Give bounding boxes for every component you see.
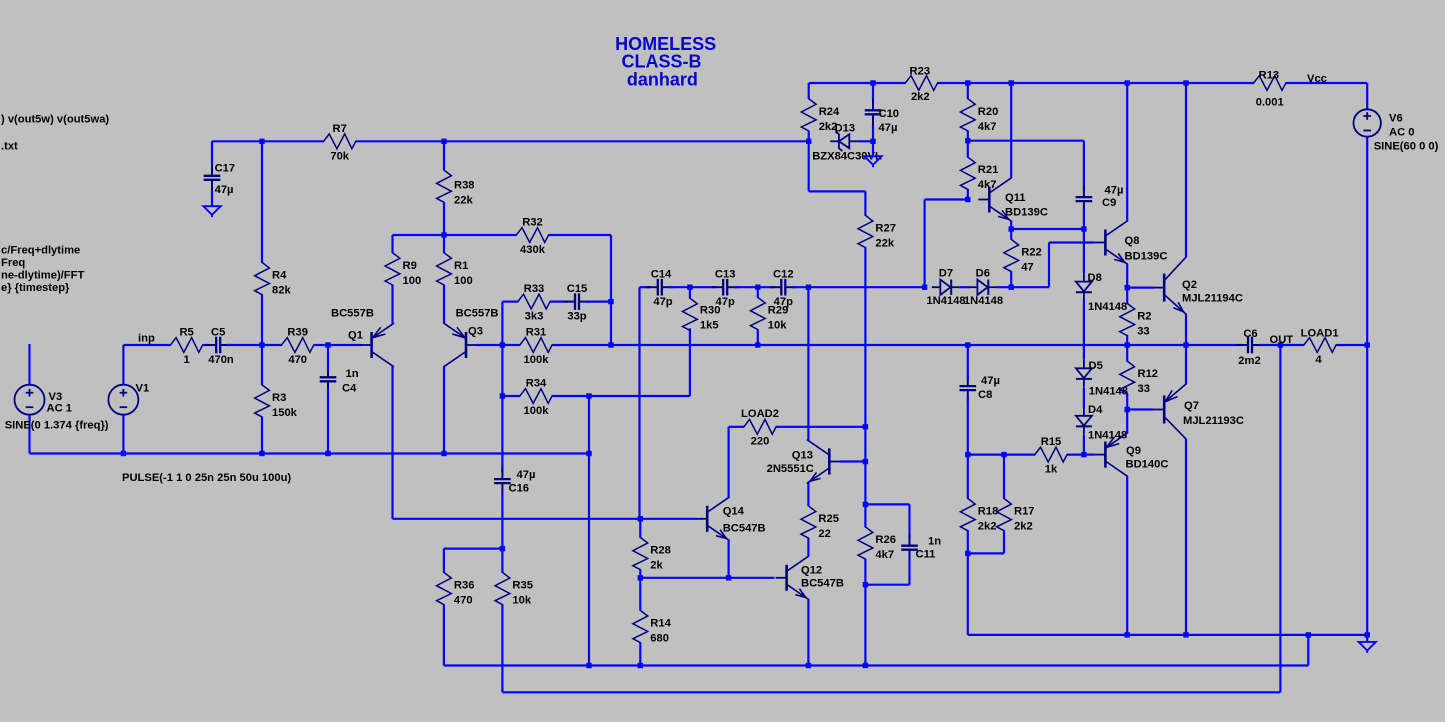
- svg-text:R38: R38: [454, 180, 475, 192]
- capacitor C14: [646, 269, 673, 309]
- node jct LOAD2/R27: [863, 424, 868, 429]
- node jct Q3 collector: [441, 451, 446, 456]
- svg-text:100k: 100k: [524, 405, 550, 417]
- resistor R26: [858, 527, 896, 561]
- svg-text:100: 100: [454, 275, 473, 287]
- node jct R31 right: [608, 342, 613, 347]
- capacitor C9: [1076, 185, 1124, 230]
- node jct output: [1183, 342, 1188, 347]
- wire Q12 emitter: [807, 599, 809, 665]
- resistor R23: [905, 65, 937, 103]
- voltage source V3: [5, 344, 109, 454]
- resistor R7: [324, 123, 356, 163]
- wire R21 leads: [967, 141, 969, 200]
- wire R27/Q13 chain: [864, 427, 866, 505]
- svg-text:R29: R29: [768, 305, 789, 317]
- capacitor C10: [865, 83, 899, 141]
- wire D6 right: [996, 286, 1011, 288]
- svg-text:R36: R36: [454, 580, 475, 592]
- wire R14 leads: [639, 578, 641, 666]
- svg-text:1N4148: 1N4148: [1088, 430, 1127, 442]
- wire Q7 base: [1127, 408, 1153, 410]
- svg-text:100k: 100k: [524, 354, 550, 366]
- wire C5-jct: [226, 344, 262, 346]
- svg-text:D4: D4: [1088, 404, 1103, 416]
- svg-text:danhard: danhard: [627, 69, 698, 89]
- title text: [615, 34, 716, 90]
- node jct C4 bottom: [325, 451, 330, 456]
- wire Q13 collector: [807, 287, 809, 440]
- svg-text:R4: R4: [272, 270, 287, 282]
- resistor R13: [1254, 70, 1286, 109]
- svg-text:R26: R26: [875, 534, 896, 546]
- wire x589 down: [588, 396, 590, 666]
- wire inp: [123, 344, 170, 346]
- svg-text:82k: 82k: [272, 285, 291, 297]
- wire R25 top: [807, 483, 809, 506]
- wire C12 right: [792, 286, 808, 288]
- node jct R35 top: [500, 546, 505, 551]
- svg-text:AC 0: AC 0: [1389, 126, 1415, 138]
- wire LOAD1 right: [1336, 344, 1367, 346]
- wire R31 left: [502, 344, 520, 346]
- wire D13 right: [858, 140, 873, 142]
- capacitor C5: [205, 326, 234, 366]
- resistor R3: [255, 385, 298, 419]
- svg-text:430k: 430k: [520, 244, 546, 256]
- svg-text:R23: R23: [910, 65, 931, 77]
- svg-text:R33: R33: [524, 283, 545, 295]
- wire Q8 collector: [1126, 83, 1128, 221]
- svg-text:CLASS-B: CLASS-B: [622, 51, 702, 71]
- wire R3 leads: [261, 345, 263, 454]
- svg-text:BC547B: BC547B: [801, 578, 844, 590]
- svg-text:1k5: 1k5: [700, 320, 719, 332]
- svg-text:D8: D8: [1088, 272, 1102, 284]
- svg-text:1n: 1n: [346, 368, 359, 380]
- svg-text:C15: C15: [567, 283, 588, 295]
- ground C17: [203, 206, 220, 217]
- wire C15 right: [586, 301, 611, 303]
- wire x611 down: [610, 302, 612, 345]
- svg-text:BC557B: BC557B: [456, 308, 499, 320]
- node jct OUT: [1278, 342, 1283, 347]
- wire Q9 emitter: [1126, 410, 1128, 434]
- resistor R34: [520, 377, 552, 417]
- svg-text:R21: R21: [978, 164, 999, 176]
- wire R28 leads: [639, 519, 641, 578]
- wire Q2 collector: [1185, 83, 1187, 257]
- wire OUT-LOAD1: [1259, 344, 1304, 346]
- svg-text:4k7: 4k7: [875, 549, 894, 561]
- svg-text:33p: 33p: [567, 310, 586, 322]
- svg-text:R1: R1: [454, 260, 468, 272]
- node inp label: [138, 333, 155, 345]
- diode D6: [964, 267, 1003, 306]
- wire R22 leads: [1010, 229, 1012, 287]
- wire R30 bottom link: [589, 328, 690, 396]
- svg-text:Q11: Q11: [1005, 192, 1026, 204]
- node jct Q2 base: [1125, 285, 1130, 290]
- node jct D4/R15: [1081, 452, 1086, 457]
- resistor R27: [858, 215, 896, 249]
- svg-text:C17: C17: [215, 162, 236, 174]
- svg-text:Q8: Q8: [1125, 235, 1140, 247]
- wire R34 left: [502, 345, 520, 396]
- svg-text:47µ: 47µ: [1105, 185, 1124, 197]
- node jct Q7 collector bottom: [1183, 632, 1188, 637]
- diode D4: [1076, 404, 1127, 442]
- svg-text:R12: R12: [1138, 368, 1159, 380]
- wire D7-D6: [959, 286, 969, 288]
- wire R39-C4jct: [314, 344, 328, 346]
- wire C11 bottom link: [865, 584, 909, 586]
- wire Q2 emitter: [1185, 314, 1187, 345]
- svg-text:D5: D5: [1089, 360, 1103, 372]
- node jct C11 top: [863, 502, 868, 507]
- resistor R25: [801, 506, 839, 540]
- svg-text:SINE(60 0 0): SINE(60 0 0): [1374, 141, 1439, 153]
- wire C14-C13: [669, 286, 716, 288]
- transistor Q9: [1094, 433, 1168, 476]
- wire R5-C5: [203, 344, 211, 346]
- svg-text:R35: R35: [512, 580, 533, 592]
- node label OUT: [1270, 334, 1294, 346]
- wire R32 left: [444, 234, 517, 236]
- wire R27 bottom: [864, 248, 866, 427]
- svg-text:470n: 470n: [208, 354, 234, 366]
- wire R36 top: [444, 549, 503, 573]
- node jct R29 top: [755, 285, 760, 290]
- svg-text:C9: C9: [1102, 197, 1116, 209]
- svg-text:3k3: 3k3: [525, 310, 544, 322]
- node label Vcc: [1307, 73, 1327, 85]
- svg-text:D6: D6: [976, 267, 990, 279]
- node jct R2/R12: [1125, 342, 1130, 347]
- wire diode row left: [808, 286, 924, 288]
- resistor R38: [437, 170, 475, 206]
- wire Q11 collector: [1010, 83, 1012, 178]
- resistor R15: [1035, 436, 1067, 476]
- svg-text:470: 470: [454, 595, 473, 607]
- svg-text:1N4148: 1N4148: [926, 295, 965, 307]
- svg-text:47µ: 47µ: [981, 375, 1000, 387]
- transistor Q8: [1094, 221, 1167, 264]
- node jct R28 top: [638, 516, 643, 521]
- node jct R34 left: [500, 393, 505, 398]
- node jct D6/R22: [1009, 285, 1014, 290]
- svg-text:R13: R13: [1259, 70, 1280, 82]
- node jct LOAD1 right: [1365, 342, 1370, 347]
- wire R4 leads: [261, 141, 263, 345]
- capacitor C16: [494, 396, 535, 549]
- svg-text:SINE(0 1.374 {freq}): SINE(0 1.374 {freq}): [5, 420, 109, 432]
- svg-text:Q3: Q3: [468, 326, 483, 338]
- wire Q11 base drop: [925, 200, 968, 288]
- wire R17 leads: [1003, 455, 1005, 554]
- wire R17-R18 bottom: [968, 552, 1004, 554]
- node jct R30 top: [687, 285, 692, 290]
- wire Vcc corner: [1366, 83, 1368, 109]
- svg-text:2k: 2k: [650, 560, 663, 572]
- svg-text:47: 47: [1021, 262, 1033, 274]
- resistor R4: [255, 262, 292, 296]
- node jct Q8 collector: [1125, 80, 1130, 85]
- ground C10: [864, 141, 881, 167]
- wire R36 bottom: [443, 605, 445, 666]
- resistor R18: [960, 499, 998, 533]
- svg-text:BD139C: BD139C: [1125, 251, 1168, 263]
- svg-text:C4: C4: [342, 383, 357, 395]
- svg-text:BD139C: BD139C: [1005, 207, 1048, 219]
- svg-text:1N4148: 1N4148: [1089, 386, 1128, 398]
- svg-text:BC547B: BC547B: [723, 523, 766, 535]
- svg-text:R27: R27: [875, 223, 896, 235]
- svg-text:2k2: 2k2: [1014, 521, 1033, 533]
- node jct C4 top: [325, 342, 330, 347]
- wire R34 right: [552, 395, 589, 397]
- resistor R5: [171, 326, 203, 366]
- wire R33 left: [502, 302, 518, 345]
- node jct Q12 emitter: [806, 663, 811, 668]
- svg-text:LOAD1: LOAD1: [1301, 328, 1339, 340]
- capacitor C15: [564, 283, 591, 323]
- svg-text:C11: C11: [916, 549, 936, 561]
- svg-text:10k: 10k: [512, 595, 531, 607]
- svg-text:Freq: Freq: [1, 257, 25, 269]
- transistor Q3: [444, 308, 498, 367]
- svg-text:47µ: 47µ: [879, 122, 898, 134]
- node jct C8 bottom: [965, 452, 970, 457]
- svg-text:) v(out5w) v(out5wa): ) v(out5w) v(out5wa): [1, 114, 109, 126]
- svg-text:Q7: Q7: [1184, 400, 1199, 412]
- svg-text:e} {timestep}: e} {timestep}: [1, 282, 70, 294]
- node jct D7 left: [922, 285, 927, 290]
- svg-text:C12: C12: [773, 269, 794, 281]
- capacitor C4: [320, 345, 359, 454]
- svg-text:R31: R31: [526, 326, 547, 338]
- svg-text:C14: C14: [651, 269, 672, 281]
- svg-text:MJL21194C: MJL21194C: [1182, 293, 1243, 305]
- wire R29 leads: [757, 287, 759, 345]
- svg-text:PULSE(-1 1 0 25n 25n 50u 100u): PULSE(-1 1 0 25n 25n 50u 100u): [122, 472, 291, 484]
- wire Q12 collector: [807, 538, 809, 556]
- resistor R32: [516, 216, 548, 256]
- wire Q13 base: [840, 460, 865, 462]
- svg-text:R14: R14: [650, 618, 671, 630]
- svg-text:1N4148: 1N4148: [1088, 301, 1127, 313]
- node jct R20 bottom: [965, 138, 970, 143]
- node jct R24/D13: [806, 139, 811, 144]
- svg-text:Q13: Q13: [792, 449, 813, 461]
- node jct C15 right: [608, 299, 613, 304]
- transistor Q13: [767, 440, 841, 483]
- svg-text:C13: C13: [715, 269, 736, 281]
- svg-text:V1: V1: [136, 383, 150, 395]
- wire R7 to R24: [356, 140, 809, 142]
- resistor R22: [1004, 239, 1042, 273]
- node jct R17 top: [1001, 452, 1006, 457]
- svg-text:LOAD2: LOAD2: [741, 408, 779, 420]
- svg-text:R39: R39: [287, 326, 308, 338]
- wire D5-D4: [1083, 388, 1085, 408]
- svg-text:c/Freq+dlytime: c/Freq+dlytime: [1, 245, 80, 257]
- node jct C12/Q13: [806, 285, 811, 290]
- svg-text:BC557B: BC557B: [331, 308, 374, 320]
- wire Q9 collector: [1126, 476, 1128, 635]
- resistor R12: [1120, 361, 1158, 395]
- svg-text:2k2: 2k2: [978, 521, 997, 533]
- resistor R39: [282, 326, 314, 366]
- resistor R36: [437, 572, 475, 606]
- svg-text:R28: R28: [650, 545, 671, 557]
- node jct C9 bottom: [1081, 226, 1086, 231]
- resistor LOAD2: [741, 408, 779, 448]
- svg-text:150k: 150k: [272, 407, 298, 419]
- node jct R38/R32/R9/R1: [441, 232, 446, 237]
- svg-text:R32: R32: [522, 216, 543, 228]
- wire top rail: [809, 82, 1367, 84]
- svg-text:R24: R24: [819, 106, 840, 118]
- wire C9-D8: [1083, 229, 1085, 273]
- voltage source V1: [108, 345, 149, 454]
- wire LOAD2 right: [776, 426, 865, 428]
- wire Q14 collector: [729, 427, 744, 498]
- node jct C10 top: [870, 80, 875, 85]
- svg-text:R20: R20: [978, 106, 999, 118]
- wire V6 bottom: [1366, 137, 1368, 635]
- svg-text:C16: C16: [509, 483, 530, 495]
- wire Q1 emitter up: [391, 285, 393, 324]
- wire R12 leads: [1126, 345, 1128, 410]
- wire R32 right: [549, 235, 612, 302]
- wire Q3 collector: [443, 367, 445, 454]
- wire Q7 collector: [1185, 439, 1187, 635]
- svg-text:47µ: 47µ: [215, 184, 234, 196]
- svg-text:2k2: 2k2: [911, 91, 930, 103]
- svg-text:R15: R15: [1041, 436, 1062, 448]
- wire bottom rail y665: [444, 635, 1308, 666]
- svg-text:1k: 1k: [1045, 463, 1058, 475]
- spice directive fragments: [1, 114, 291, 485]
- node jct V6 gnd: [1365, 632, 1370, 637]
- wire emitter-C9: [1011, 228, 1084, 230]
- svg-text:70k: 70k: [330, 150, 349, 162]
- node jct R3 bottom: [259, 451, 264, 456]
- svg-text:D7: D7: [939, 267, 953, 279]
- node jct R29 bottom: [755, 342, 760, 347]
- transistor Q12: [776, 556, 844, 599]
- node jct Q7 base: [1125, 407, 1130, 412]
- transistor Q11: [978, 178, 1048, 221]
- node jct y665-y635 link: [1306, 632, 1311, 637]
- resistor R14: [633, 610, 672, 644]
- svg-text:AC 1: AC 1: [47, 403, 73, 415]
- voltage source V6: [1354, 109, 1439, 152]
- svg-text:0.001: 0.001: [1256, 96, 1284, 108]
- node jct R14 bottom: [638, 663, 643, 668]
- svg-text:BD140C: BD140C: [1126, 459, 1169, 471]
- svg-text:10k: 10k: [768, 320, 787, 332]
- node jct C17/R4: [259, 139, 264, 144]
- svg-text:R9: R9: [403, 260, 417, 272]
- node jct R34 right: [586, 393, 591, 398]
- wire R20 leads: [967, 83, 969, 141]
- ground bottom right: [1359, 635, 1376, 653]
- capacitor C6: [1237, 328, 1264, 367]
- node jct Q13 base: [863, 459, 868, 464]
- diode D7: [926, 267, 965, 306]
- svg-text:V6: V6: [1389, 113, 1403, 125]
- wire to Q14 base: [640, 518, 697, 520]
- node jct Q3 base: [500, 342, 505, 347]
- svg-text:1N4148: 1N4148: [964, 295, 1003, 307]
- svg-text:Q1: Q1: [348, 330, 363, 342]
- transistor Q1: [331, 308, 393, 367]
- wire R26 to bottom: [864, 585, 866, 666]
- svg-text:R22: R22: [1021, 247, 1042, 259]
- svg-text:R30: R30: [700, 305, 721, 317]
- svg-text:C5: C5: [211, 326, 225, 338]
- node jct Q14 emitter: [726, 575, 731, 580]
- node jct C8 top: [965, 342, 970, 347]
- svg-text:Q14: Q14: [723, 506, 745, 518]
- transistor Q7: [1153, 384, 1244, 439]
- wire Q1 collector: [393, 367, 640, 519]
- node jct rail x589: [586, 451, 591, 456]
- node jct Q9 collector bottom: [1125, 632, 1130, 637]
- resistor R20: [960, 99, 998, 133]
- node jct R21 bottom: [965, 197, 970, 202]
- svg-text:680: 680: [650, 633, 669, 645]
- capacitor C8: [960, 345, 1000, 455]
- svg-text:22k: 22k: [454, 195, 473, 207]
- node jct R26 bottom: [863, 582, 868, 587]
- node jct V1 bottom: [121, 451, 126, 456]
- resistor R1: [437, 253, 473, 287]
- wire R24 leads: [808, 83, 810, 141]
- svg-text:22k: 22k: [875, 238, 894, 250]
- resistor R9: [385, 253, 421, 287]
- svg-text:C8: C8: [978, 389, 992, 401]
- svg-text:47µ: 47µ: [517, 469, 536, 481]
- svg-text:Q12: Q12: [801, 565, 822, 577]
- svg-text:47p: 47p: [653, 296, 672, 308]
- wire R20-C9: [968, 141, 1084, 190]
- svg-text:D13: D13: [835, 122, 856, 134]
- wire Q3 base: [476, 344, 502, 346]
- svg-text:Vcc: Vcc: [1307, 73, 1327, 85]
- svg-text:Q9: Q9: [1126, 445, 1141, 457]
- node jct C10/D13: [870, 139, 875, 144]
- wire R33-C15: [550, 301, 568, 303]
- wire D13 to R27: [809, 141, 866, 215]
- svg-text:R5: R5: [179, 326, 193, 338]
- wire R26 leads: [864, 504, 866, 584]
- svg-text:C10: C10: [879, 108, 900, 120]
- resistor LOAD1: [1301, 328, 1339, 367]
- resistor R17: [997, 499, 1035, 533]
- svg-text:22: 22: [818, 528, 830, 540]
- wire R2 leads: [1126, 288, 1128, 345]
- transistor Q14: [696, 497, 765, 540]
- zener D13: [812, 122, 882, 162]
- wire R18 to bottom: [968, 553, 1367, 635]
- wire D8-D5: [1083, 299, 1085, 360]
- svg-text:ne-dlytime)/FFT: ne-dlytime)/FFT: [1, 270, 84, 282]
- node jct R20 top: [965, 80, 970, 85]
- wire R30 leads: [689, 287, 691, 298]
